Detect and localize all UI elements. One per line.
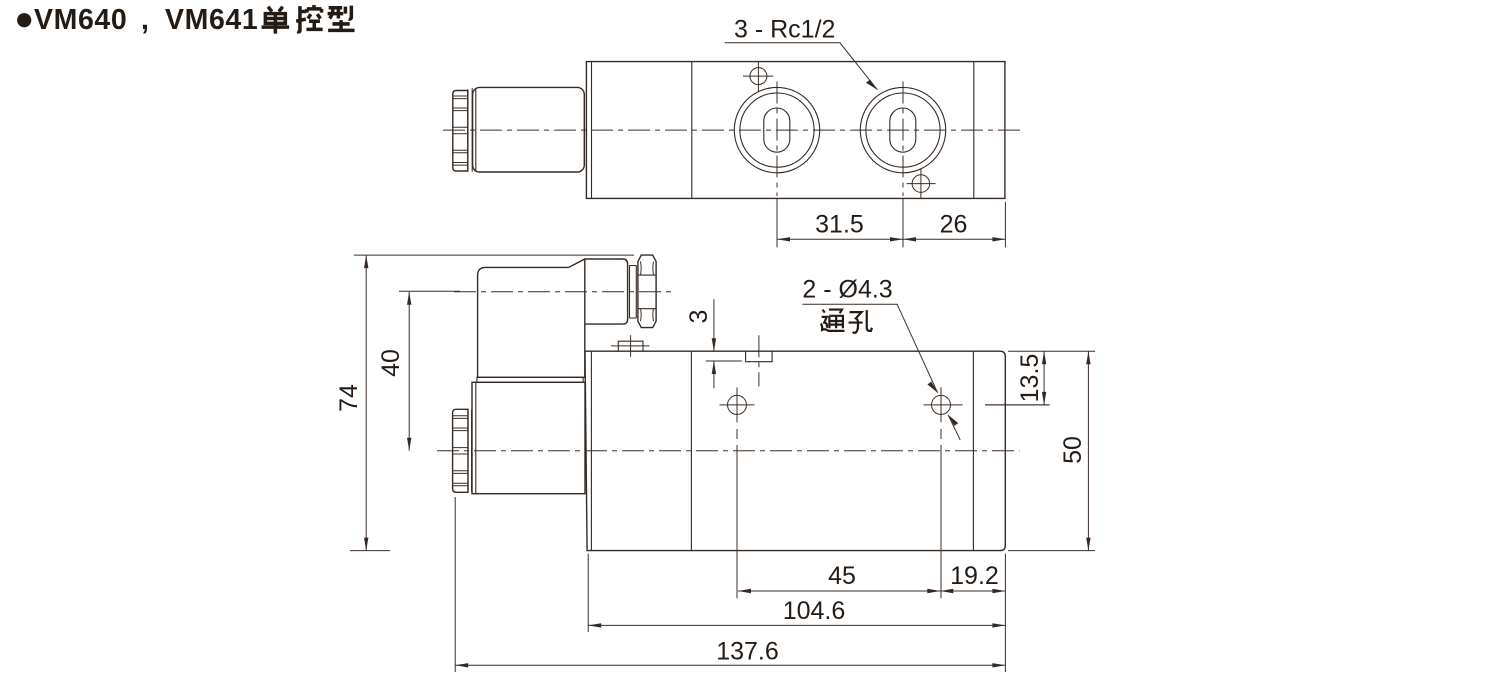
bottom view internal vertical left <box>690 351 692 550</box>
mounting hole 2 <box>932 395 951 414</box>
top view solenoid body <box>473 87 585 172</box>
dimension 45 / 19.2 <box>738 590 1005 592</box>
svg-text:137.6: 137.6 <box>716 638 779 666</box>
port circle 2 outer <box>860 87 945 172</box>
svg-text:19.2: 19.2 <box>950 562 999 590</box>
bottom view main body outline <box>585 351 1005 550</box>
dimension 137.6 <box>455 664 1005 666</box>
title CJK 控 <box>296 5 322 32</box>
CJK 通 <box>821 310 845 331</box>
dimension 40 <box>399 290 460 292</box>
connector box with conduit boss <box>478 259 628 377</box>
top view horizontal centerline <box>443 129 1022 131</box>
bottom extension lines <box>455 497 1005 672</box>
washer between boss and nut <box>630 266 637 319</box>
top view main body outline <box>586 62 1005 199</box>
hex nut <box>638 255 656 328</box>
svg-text:31.5: 31.5 <box>815 211 864 239</box>
top view body inner left line <box>591 62 593 199</box>
port circle 1 outer <box>734 87 819 172</box>
svg-text:VM640: VM640 <box>34 4 127 36</box>
top view internal vertical line right <box>973 62 975 199</box>
connector axis centerline <box>454 291 672 293</box>
svg-text:VM641: VM641 <box>165 4 258 36</box>
svg-text:2 - Ø4.3: 2 - Ø4.3 <box>802 276 892 304</box>
top view knurled cap <box>453 91 468 172</box>
top view solenoid flange ring <box>468 88 472 172</box>
mounting hole 1 <box>728 395 747 414</box>
svg-text:40: 40 <box>377 349 405 377</box>
solenoid axis centerline <box>437 450 1020 452</box>
small screw hole top <box>750 68 767 85</box>
svg-text:3: 3 <box>685 310 713 324</box>
cap flange <box>468 410 472 492</box>
top view internal vertical line left <box>691 62 693 199</box>
title CJK 型 <box>328 6 355 31</box>
dimension 74 <box>350 255 634 550</box>
inner tab centerline <box>758 335 760 386</box>
coil base plate <box>477 377 583 382</box>
bottom view knurled cap <box>453 409 468 492</box>
port circle 1 inner <box>740 93 814 167</box>
inner tab below edge <box>746 351 773 362</box>
top view cap knurl lines <box>453 96 468 165</box>
dimension 50 <box>1008 550 1095 552</box>
hole 2 extension line right <box>985 404 1050 406</box>
coil body <box>472 382 585 493</box>
title bullet <box>17 13 31 27</box>
svg-text:,: , <box>141 4 149 36</box>
manual override tab <box>618 341 643 351</box>
port 1 obround slot <box>764 108 790 152</box>
bottom view inner left line <box>590 351 592 550</box>
small screw hole bottom <box>912 175 930 193</box>
dimension 13.5 <box>985 351 1095 405</box>
CJK 孔 <box>849 310 872 333</box>
title CJK 单 <box>262 7 290 34</box>
bottom cap knurl lines <box>453 416 468 486</box>
top notch line (3mm step) <box>706 360 742 362</box>
port 2 vertical centerline <box>902 82 904 197</box>
port 2 obround slot <box>890 108 916 152</box>
svg-text:45: 45 <box>828 562 856 590</box>
port 1 vertical centerline <box>776 82 778 197</box>
svg-text:26: 26 <box>940 211 968 239</box>
top view dimension 31.5 / 26 <box>777 199 1005 248</box>
svg-text:13.5: 13.5 <box>1016 354 1044 403</box>
dimension 104.6 <box>588 624 1005 626</box>
port circle 2 inner <box>866 93 940 167</box>
svg-text:74: 74 <box>335 384 363 412</box>
bottom view internal vertical right <box>972 351 974 550</box>
svg-text:3 - Rc1/2: 3 - Rc1/2 <box>734 16 835 44</box>
svg-text:50: 50 <box>1059 436 1087 464</box>
dimension 3 <box>713 299 715 388</box>
svg-text:104.6: 104.6 <box>783 597 846 625</box>
